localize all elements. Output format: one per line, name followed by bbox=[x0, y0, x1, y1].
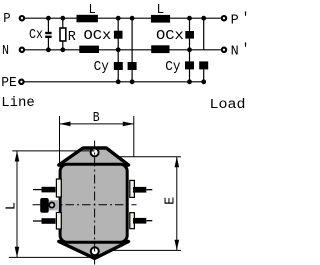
junction P-R bbox=[60, 16, 65, 21]
junction N-C bbox=[187, 47, 192, 52]
junction N-Cx bbox=[46, 47, 51, 52]
svg-text:L: L bbox=[89, 3, 96, 18]
svg-text:P: P bbox=[231, 13, 239, 28]
svg-text:Cx: Cx bbox=[29, 28, 43, 43]
junction PE-D bbox=[201, 79, 206, 84]
svg-text:': ' bbox=[242, 11, 248, 26]
capacitor Cy stage2 N bbox=[185, 61, 194, 69]
wire node B vertical bbox=[131, 18, 133, 82]
wire node D vertical bbox=[203, 18, 205, 50]
wire node A vertical bbox=[117, 18, 119, 82]
bottom mounting flange bbox=[59, 242, 129, 259]
wire PE line bbox=[24, 81, 203, 83]
svg-text:L: L bbox=[157, 3, 164, 18]
ground lug bbox=[40, 198, 59, 213]
junction P-B bbox=[130, 16, 135, 21]
terminal block left 1 bbox=[56, 179, 61, 197]
dimension L bbox=[4, 151, 95, 258]
wire node C vertical bbox=[189, 18, 191, 82]
dimension B bbox=[60, 111, 134, 163]
dimension E bbox=[113, 157, 181, 251]
terminal PE bbox=[1, 76, 23, 91]
svg-text:L: L bbox=[4, 202, 19, 210]
svg-text:Line: Line bbox=[1, 96, 35, 111]
capacitor OCx stage1 bbox=[84, 29, 123, 44]
svg-text:R: R bbox=[68, 30, 76, 45]
centerline horizontal bbox=[33, 204, 137, 206]
wire P line bbox=[25, 17, 221, 19]
svg-text:P: P bbox=[3, 12, 10, 27]
resistor R bbox=[60, 18, 76, 50]
svg-text:B: B bbox=[93, 111, 100, 126]
junction P-Cx bbox=[46, 16, 51, 21]
junction PE-B bbox=[130, 79, 135, 84]
svg-text:Load: Load bbox=[210, 98, 246, 113]
svg-text:Cy: Cy bbox=[165, 60, 180, 75]
terminal pin left 2 bbox=[33, 218, 56, 224]
inductor L1 N-line bbox=[79, 46, 99, 53]
inductor L2 N-line bbox=[151, 45, 169, 53]
terminal block left 2 bbox=[56, 213, 61, 230]
svg-text:Cy: Cy bbox=[94, 60, 109, 75]
inductor L2 P-line bbox=[151, 3, 170, 22]
inductor L1 P-line bbox=[77, 3, 98, 22]
svg-text:N: N bbox=[2, 44, 9, 59]
svg-text:N: N bbox=[231, 45, 239, 60]
mounting hole bottom bbox=[91, 247, 99, 255]
junction N-R bbox=[60, 47, 65, 52]
terminal pin right 1 bbox=[133, 187, 152, 193]
junction N-A bbox=[116, 47, 121, 52]
capacitor Cy stage2 P bbox=[165, 60, 208, 75]
svg-text:': ' bbox=[242, 43, 248, 58]
terminal N bbox=[2, 44, 24, 59]
capacitor Cx bbox=[29, 18, 52, 50]
terminal pin left 1 bbox=[33, 187, 56, 193]
junction P-D bbox=[201, 16, 206, 21]
terminal P bbox=[3, 12, 24, 27]
terminal block right 2 bbox=[130, 213, 135, 229]
centerline vertical bbox=[94, 141, 96, 265]
wire N line bbox=[25, 49, 221, 51]
svg-text:E: E bbox=[164, 197, 179, 205]
terminal pin right 2 bbox=[133, 218, 152, 224]
junction PE-C bbox=[187, 79, 192, 84]
svg-text:OCx: OCx bbox=[156, 29, 184, 44]
top mounting flange bbox=[59, 148, 129, 165]
svg-text:PE: PE bbox=[1, 76, 17, 91]
svg-text:OCx: OCx bbox=[84, 29, 112, 44]
junction PE-A bbox=[116, 79, 121, 84]
wire Cy stage2 P stub bbox=[203, 70, 205, 82]
capacitor Cy stage1 N bbox=[114, 62, 123, 70]
capacitor OCx stage2 bbox=[156, 29, 194, 44]
junction P-C bbox=[187, 16, 192, 21]
terminal N' bbox=[222, 43, 250, 60]
mounting hole top bbox=[91, 148, 99, 156]
filter body bbox=[60, 164, 127, 242]
junction P-A bbox=[116, 16, 121, 21]
terminal P' bbox=[222, 11, 250, 28]
capacitor Cy stage1 P bbox=[94, 60, 137, 75]
terminal block right 1 bbox=[130, 180, 135, 197]
